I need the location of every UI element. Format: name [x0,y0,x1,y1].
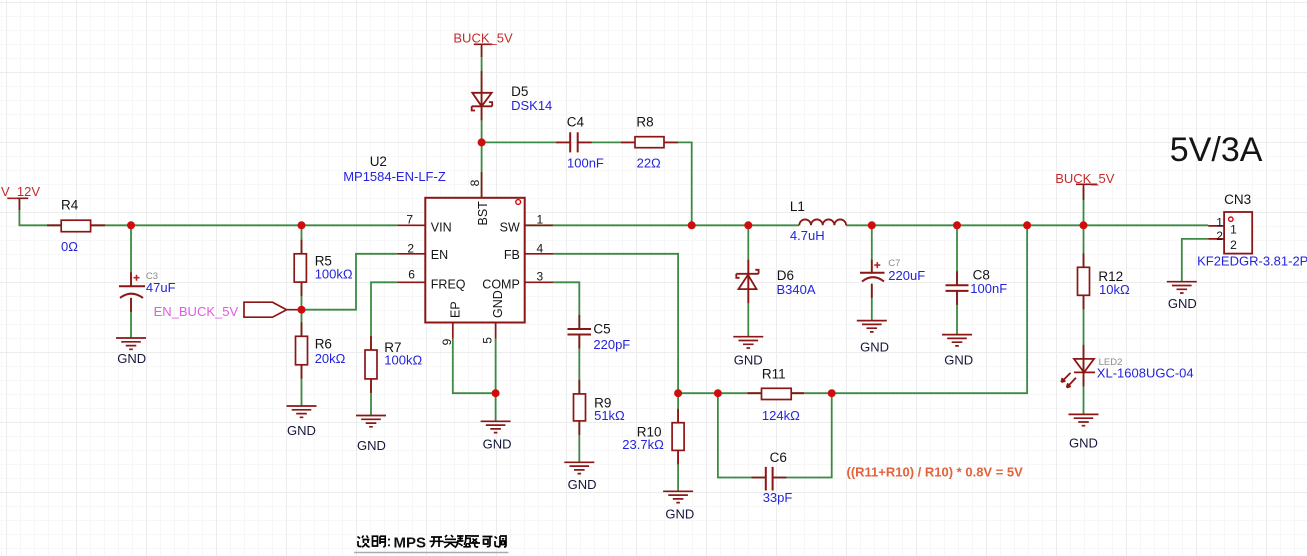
svg-text:GND: GND [287,423,316,438]
svg-text:BST: BST [476,201,490,226]
svg-text:R11: R11 [762,367,786,382]
svg-text:20kΩ: 20kΩ [315,351,346,366]
svg-text:9: 9 [440,338,454,345]
svg-text:5: 5 [480,337,494,344]
svg-text:L1: L1 [790,199,805,214]
svg-text:100nF: 100nF [567,156,604,171]
svg-text:GND: GND [357,438,386,453]
svg-text:D6: D6 [777,268,794,283]
svg-text:47uF: 47uF [146,280,176,295]
svg-text:((R11+R10) / R10) * 0.8V = 5V: ((R11+R10) / R10) * 0.8V = 5V [847,464,1024,479]
svg-text:22Ω: 22Ω [637,156,661,171]
svg-text:7: 7 [406,213,413,227]
svg-text:GND: GND [491,290,505,318]
svg-text:U2: U2 [370,154,387,169]
svg-text:CN3: CN3 [1224,192,1251,207]
svg-text:GND: GND [734,353,763,368]
svg-text:100nF: 100nF [970,281,1007,296]
svg-text:SW: SW [500,221,520,235]
svg-text:C4: C4 [567,115,585,130]
svg-text:220uF: 220uF [888,268,925,283]
svg-text:124kΩ: 124kΩ [762,408,800,423]
svg-text:LED2: LED2 [1099,357,1123,368]
svg-text:2: 2 [407,242,414,256]
svg-text:DSK14: DSK14 [511,98,552,113]
svg-text:GND: GND [568,477,597,492]
svg-text:EP: EP [449,301,463,318]
svg-text:COMP: COMP [482,278,520,292]
svg-text:6: 6 [408,268,415,282]
svg-text:1: 1 [537,213,544,227]
svg-text:33pF: 33pF [763,490,793,505]
svg-text:BUCK_5V: BUCK_5V [453,31,513,46]
svg-text:EN: EN [431,248,448,262]
svg-text:2: 2 [1230,238,1237,252]
svg-text:220pF: 220pF [593,337,630,352]
svg-text:C6: C6 [770,450,787,465]
svg-text:C5: C5 [593,322,610,337]
svg-text:GND: GND [665,507,694,522]
svg-text:5V/3A: 5V/3A [1170,131,1263,169]
svg-text:0Ω: 0Ω [61,239,78,254]
svg-text:10kΩ: 10kΩ [1099,282,1130,297]
svg-text:B340A: B340A [777,282,816,297]
svg-text:FB: FB [504,248,520,262]
svg-text:GND: GND [860,340,889,355]
svg-text:1: 1 [1230,222,1237,236]
svg-text:GND: GND [117,351,146,366]
svg-text:4.7uH: 4.7uH [790,228,825,243]
svg-text:R4: R4 [61,198,79,213]
svg-text:100kΩ: 100kΩ [315,267,353,282]
svg-text:MPS: MPS [394,534,427,551]
svg-text:2: 2 [1216,229,1223,243]
svg-text:1: 1 [1216,215,1223,229]
svg-text:GND: GND [1168,296,1197,311]
svg-text:EN_BUCK_5V: EN_BUCK_5V [154,304,239,319]
svg-text:GND: GND [483,437,512,452]
svg-text:23.7kΩ: 23.7kΩ [622,437,664,452]
svg-text:3: 3 [537,270,544,284]
svg-text:GND: GND [944,353,973,368]
svg-text:KF2EDGR-3.81-2P: KF2EDGR-3.81-2P [1197,254,1307,269]
svg-text:C3: C3 [146,271,158,282]
svg-text:GND: GND [1069,436,1098,451]
svg-text:R6: R6 [315,337,332,352]
svg-text:51kΩ: 51kΩ [594,408,625,423]
svg-text:BUCK_5V: BUCK_5V [1055,171,1115,186]
svg-text:C7: C7 [888,258,900,269]
svg-text:V_12V: V_12V [1,184,40,199]
svg-text:100kΩ: 100kΩ [384,353,422,368]
svg-text:VIN: VIN [431,221,452,235]
svg-text:FREQ: FREQ [431,278,466,292]
svg-text:D5: D5 [511,84,528,99]
svg-text:MP1584-EN-LF-Z: MP1584-EN-LF-Z [343,169,446,184]
svg-text:8: 8 [468,179,482,186]
svg-text:4: 4 [537,242,544,256]
svg-text:R8: R8 [636,115,653,130]
